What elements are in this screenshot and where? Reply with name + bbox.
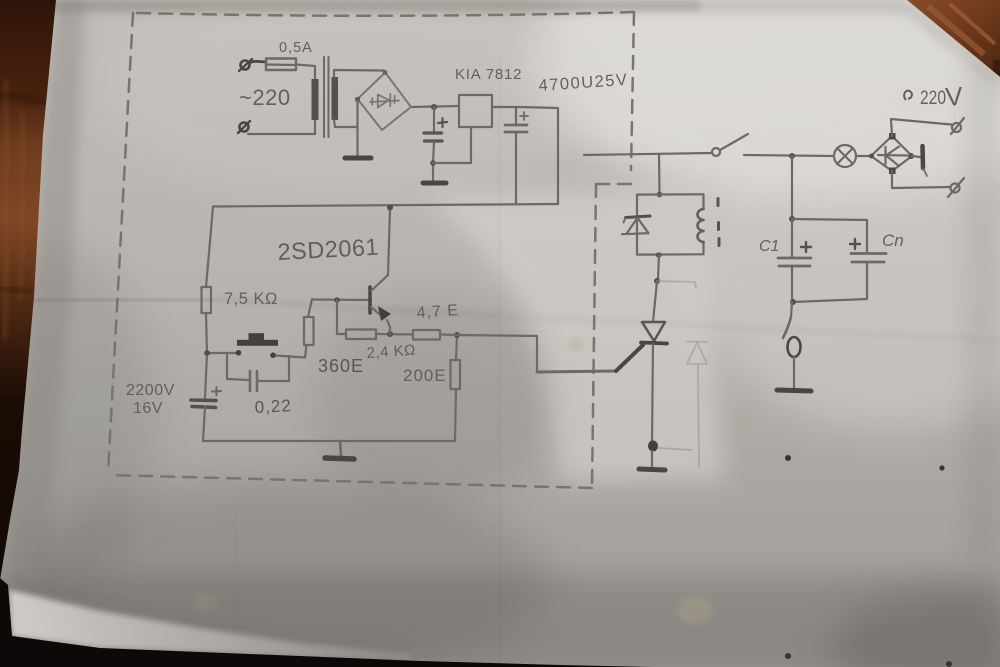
svg-text:200E: 200E — [403, 366, 447, 385]
svg-text:4,7 E: 4,7 E — [416, 302, 459, 322]
svg-text:C1: C1 — [759, 238, 779, 255]
svg-text:V: V — [944, 81, 964, 112]
svg-text:KIA 7812: KIA 7812 — [455, 66, 522, 83]
svg-text:16V: 16V — [133, 400, 163, 417]
svg-text:2SD2061: 2SD2061 — [277, 234, 380, 265]
svg-text:360E: 360E — [318, 356, 364, 376]
svg-text:2200V: 2200V — [126, 382, 175, 399]
svg-text:2,4 KΩ: 2,4 KΩ — [366, 342, 416, 362]
svg-text:0,5A: 0,5A — [279, 40, 313, 56]
svg-text:~220: ~220 — [239, 85, 291, 110]
svg-text:Cn: Cn — [882, 231, 904, 250]
svg-text:0,22: 0,22 — [254, 396, 292, 417]
svg-text:7,5 KΩ: 7,5 KΩ — [224, 290, 278, 308]
svg-text:220: 220 — [920, 88, 946, 109]
